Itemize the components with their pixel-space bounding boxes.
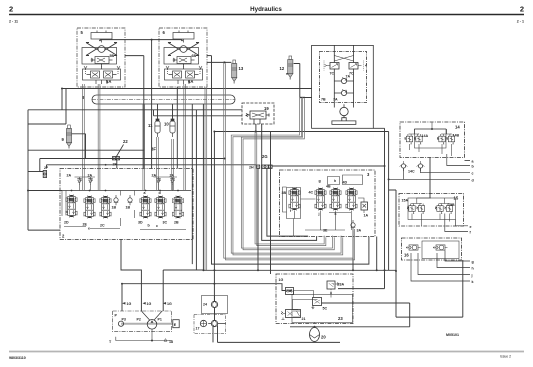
valve 5C — [312, 298, 328, 311]
wire: steering 5 valve out lower (double line) — [142, 104, 144, 190]
svg-text:4D: 4D — [343, 181, 348, 185]
wire: nest U6 from valve 19 (double line) — [255, 131, 326, 246]
svg-text:2A: 2A — [152, 173, 157, 177]
flow regulator 16 left — [406, 245, 421, 250]
svg-text:24: 24 — [203, 303, 207, 307]
label 22 with leader — [116, 139, 129, 158]
wire: center bundle vertical 205.8 (double) — [205, 87, 207, 270]
footer rule — [9, 351, 524, 353]
wire: 2F top marker stub — [116, 160, 118, 169]
relief valve 2A (1) — [67, 173, 82, 185]
block2 internal gallery lines — [62, 191, 135, 227]
svg-text:2: 2 — [520, 5, 524, 14]
gauge point 1G (1) — [122, 302, 131, 306]
svg-text:2A: 2A — [88, 173, 93, 177]
wire: pilot line y=115.8 — [154, 110, 243, 116]
wire: left corner down from y=88.5 — [61, 89, 63, 110]
svg-text:P2: P2 — [137, 318, 141, 322]
relief valve 1A — [358, 198, 368, 218]
test point marker 2F left — [43, 166, 49, 178]
wire: sensor 13 tee line — [207, 61, 231, 63]
svg-text:1G: 1G — [127, 302, 132, 306]
port leader h — [437, 253, 470, 268]
pressure switch 13 — [232, 60, 244, 84]
T and 18 drain line — [109, 329, 173, 344]
svg-text:2E: 2E — [83, 223, 88, 227]
svg-text:14A: 14A — [422, 134, 429, 138]
svg-text:1B: 1B — [126, 206, 131, 210]
svg-text:3D: 3D — [138, 221, 143, 225]
wire: bottom bus y=270.3 — [203, 269, 396, 271]
cartridge 15B pair — [435, 203, 455, 214]
spool section 3B — [282, 188, 301, 214]
hand pump circle — [340, 107, 348, 115]
port leader g — [445, 251, 470, 262]
svg-text:2D: 2D — [64, 221, 69, 225]
svg-text:Hydraulics: Hydraulics — [250, 6, 282, 13]
check valve unit 24 — [202, 296, 228, 314]
valve block 16 enclosure — [402, 238, 462, 260]
svg-text:g: g — [472, 260, 474, 264]
wire: accumulator 11 drain into block 2 (double line) — [156, 137, 158, 190]
wire: steering unit 5 supply down to block 2 (double line) — [97, 84, 99, 190]
wire: 23 block outlet right y=303 — [322, 302, 410, 304]
relief valve 2A (2) — [88, 173, 93, 185]
wire: pump P1 suction riser — [163, 270, 203, 311]
E box — [173, 320, 179, 328]
pump P1/P2 circle — [147, 320, 157, 330]
valve block 15 enclosure — [399, 194, 464, 227]
cylinder 8 — [82, 95, 235, 104]
port leader k — [411, 253, 470, 281]
svg-text:3C: 3C — [163, 221, 168, 225]
wire: block2 outlet to pump P2 — [121, 239, 141, 311]
spool section 3D — [138, 191, 151, 228]
port leader a — [465, 160, 471, 162]
svg-text:2G: 2G — [262, 154, 268, 159]
wire: check valve 3A drain to bus — [352, 230, 354, 270]
svg-text:2B: 2B — [174, 221, 179, 225]
svg-text:2 - 1: 2 - 1 — [517, 20, 524, 24]
svg-text:23A: 23A — [338, 283, 345, 287]
wire: mid bus y=164.8 — [47, 165, 257, 168]
svg-text:2 - 11: 2 - 11 — [9, 20, 18, 24]
svg-text:g: g — [319, 179, 321, 183]
svg-text:d: d — [472, 179, 474, 183]
svg-text:4C: 4C — [309, 191, 314, 195]
svg-text:16: 16 — [404, 253, 409, 258]
wire: left return line y=150.2 — [28, 149, 144, 151]
gauge point 1G (2) — [143, 302, 152, 306]
wire: left feed line y=109.8 to valve 19 — [28, 109, 242, 111]
23 inner rect — [292, 295, 353, 323]
relief valve 2A (4) — [170, 173, 175, 185]
svg-text:j: j — [471, 274, 473, 278]
svg-text:20: 20 — [321, 335, 326, 340]
junction dots on bus — [72, 190, 179, 192]
solenoid valve 23A — [327, 281, 344, 293]
valve 23B — [286, 288, 294, 295]
pump P3 circle — [118, 321, 123, 326]
svg-text:13: 13 — [239, 66, 244, 71]
svg-text:22: 22 — [123, 139, 128, 144]
cartridge 15A pair — [402, 199, 425, 214]
svg-text:3E: 3E — [323, 229, 328, 233]
steering unit 6 — [159, 28, 207, 87]
2A connection wires — [75, 177, 178, 191]
accumulator 12 — [280, 56, 293, 80]
wire: P3 feed bus y=283.7 — [122, 284, 286, 311]
block 2 inlet bus — [62, 190, 191, 192]
svg-text:e: e — [88, 227, 90, 231]
accumulator 11 — [148, 119, 160, 137]
gauge point 1G (3) — [163, 302, 172, 306]
wire: block2 bus extension left — [28, 190, 62, 192]
wire: center bundle vertical 196.4 — [195, 110, 197, 270]
wire: 23 block bottom drain y=326.8 — [290, 303, 410, 327]
wire: 2F left marker stub — [28, 171, 43, 173]
14 internal wiring — [410, 123, 452, 157]
14 inner rect — [415, 129, 447, 148]
svg-text:15A: 15A — [402, 199, 409, 203]
solenoid valve 19 — [242, 103, 274, 124]
23 internal wires — [286, 291, 332, 310]
shuttle 7A lower — [333, 90, 354, 102]
wire: nest line U1 left — [202, 104, 204, 270]
brake valve 7C right — [349, 61, 367, 76]
test point 2H marker — [249, 165, 260, 170]
wire: accumulator 11/10 stems — [158, 104, 173, 119]
crossover lines above 7C — [334, 56, 353, 62]
wire: accumulator 10 drain into block 2 (double line) — [171, 139, 173, 190]
wire: nest U8 from 2G — [267, 168, 308, 236]
shuttle 7A upper — [334, 75, 353, 84]
svg-text:P1: P1 — [158, 318, 162, 322]
wire: center bundle vertical 192.3 — [191, 104, 193, 264]
svg-text:4B: 4B — [326, 185, 331, 189]
wire: center bundle vertical 214.4 through 24 — [213, 132, 215, 302]
svg-text:23B: 23B — [286, 289, 293, 293]
block 3 internal rects — [287, 175, 363, 219]
pump pedestal — [332, 118, 356, 125]
svg-text:19: 19 — [264, 106, 269, 111]
wire: pilot row y=166 to right — [272, 165, 384, 167]
svg-text:1B: 1B — [112, 206, 117, 210]
svg-text:j: j — [318, 212, 320, 216]
wire: left bottom stub into block 2 — [28, 229, 60, 231]
wire: nest U5 (double line) — [241, 97, 334, 250]
wire: pilot line y=131.5 across to right — [214, 131, 388, 133]
wire: left sub rect top y=124 — [28, 89, 66, 125]
svg-text:5B: 5B — [110, 54, 115, 58]
wire: right vertical x=396 — [389, 190, 463, 317]
spool section 4B — [326, 179, 341, 216]
svg-text:17: 17 — [196, 327, 200, 331]
spool section 2D — [64, 195, 77, 225]
svg-text:2: 2 — [9, 5, 13, 14]
spool section 2E — [83, 196, 96, 231]
wire: 2G third drop to block 23 — [270, 132, 272, 275]
header rule — [9, 14, 524, 16]
svg-text:e: e — [470, 225, 472, 229]
wire: steering 5 tank return (double line) — [82, 84, 84, 190]
svg-text:18: 18 — [169, 340, 173, 344]
port leader d — [389, 168, 470, 179]
wire: filter 20 stems — [314, 327, 316, 343]
spool section 4D — [343, 181, 358, 211]
port leader c — [421, 168, 471, 173]
svg-text:14: 14 — [455, 125, 460, 130]
accumulator 9 — [62, 125, 72, 149]
port leader b — [447, 154, 470, 166]
pilot block 23 enclosure — [276, 274, 353, 324]
svg-text:6A: 6A — [188, 79, 193, 84]
svg-text:3A: 3A — [357, 229, 362, 233]
check valve 1B (1) — [112, 195, 119, 210]
svg-text:2H: 2H — [249, 166, 254, 170]
svg-text:5C: 5C — [323, 307, 328, 311]
svg-text:2A: 2A — [67, 173, 72, 177]
port leader e — [456, 220, 469, 226]
supply lines through 7 — [334, 45, 353, 107]
hand pump assembly outer frame 7 — [312, 45, 374, 128]
check valve 1B (2) — [126, 195, 133, 210]
main control valve block 2 enclosure — [60, 169, 193, 240]
spool section 3C — [155, 191, 168, 228]
spool section 2B — [172, 196, 183, 225]
wire: nest U3 (double line) — [224, 62, 355, 260]
svg-text:14B: 14B — [453, 134, 460, 138]
cartridge 14B pair — [437, 134, 459, 145]
svg-text:7B: 7B — [321, 98, 326, 102]
svg-text:10: 10 — [164, 122, 169, 127]
svg-text:c: c — [472, 172, 474, 176]
wire: nest U7 from valve 19 right drop — [262, 124, 317, 240]
svg-text:7C: 7C — [330, 72, 335, 76]
wire: 2H drop — [257, 168, 259, 270]
loader valve block 3 enclosure — [280, 170, 376, 237]
wire: right vertical x=388.6 — [388, 132, 390, 271]
wire: steering unit 5 valve out to block 2 — [125, 56, 144, 169]
wire: 24 to 17 — [214, 308, 216, 321]
wire: sensor 12 line to hand pump 7 — [294, 64, 312, 98]
block 3 gallery — [283, 187, 352, 237]
svg-text:h: h — [334, 179, 336, 183]
steering unit 5 — [77, 28, 125, 87]
wire: nest U4 (double line) — [231, 97, 343, 255]
wire: mid bus y=158.5 — [40, 159, 225, 172]
svg-text:h: h — [472, 267, 474, 271]
svg-text:7A: 7A — [346, 75, 351, 79]
pump drive shaft — [121, 323, 173, 325]
filter 20 — [310, 322, 327, 342]
quick couplings 14C — [400, 161, 425, 174]
svg-text:c: c — [156, 224, 158, 228]
wire: hand pump 7 drain down to 23A — [338, 128, 385, 288]
port leader f — [445, 214, 468, 232]
brake valve 7C left — [324, 61, 339, 76]
cartridge 14A pair — [405, 134, 429, 144]
svg-text:23: 23 — [338, 316, 343, 321]
svg-text:12: 12 — [280, 66, 285, 71]
wire: nest U2 — [212, 56, 369, 265]
wire: steering unit 6 supply down to block 2 (double line) — [183, 84, 185, 190]
svg-text:M05101: M05101 — [446, 333, 459, 337]
svg-text:1A: 1A — [364, 214, 369, 218]
check valve 3A — [351, 220, 362, 233]
test point marker 2F top — [113, 157, 120, 167]
wire: valve 19 drops — [255, 124, 257, 132]
wire: box 14 to box 15 link — [429, 158, 431, 199]
wire: sensor 9 drain loop — [72, 134, 86, 159]
brake valve block 7B enclosure — [320, 52, 367, 103]
block2 bottom brackets — [64, 227, 186, 230]
wire: steering 6 relief drain — [176, 87, 178, 169]
accumulator 10 — [164, 119, 175, 137]
svg-text:7A: 7A — [333, 98, 338, 102]
svg-text:2C: 2C — [100, 224, 105, 228]
wire: steering unit 6 valve out — [207, 55, 212, 57]
svg-text:1G: 1G — [147, 302, 152, 306]
spool section 4C — [309, 179, 327, 216]
svg-text:k: k — [472, 280, 474, 284]
spool section 2C — [100, 196, 111, 228]
suction V lines into main pump — [141, 311, 162, 320]
wire: 17 drain to tank line — [213, 326, 340, 343]
svg-text:6B: 6B — [192, 54, 197, 58]
svg-text:P3: P3 — [122, 318, 126, 322]
pump assembly P — [113, 311, 180, 332]
test point 2G markers — [262, 154, 273, 168]
svg-text:1G: 1G — [279, 278, 284, 282]
flow regulator 16 right — [433, 245, 448, 250]
svg-text:21: 21 — [302, 317, 306, 321]
wire: left vertical main return — [27, 110, 29, 230]
port leader j — [418, 253, 470, 275]
svg-text:9803/3110: 9803/3110 — [9, 356, 26, 360]
svg-text:Issue 2: Issue 2 — [500, 355, 511, 359]
svg-text:11: 11 — [148, 123, 153, 128]
valve block 14 enclosure — [400, 122, 465, 158]
svg-text:5A: 5A — [106, 79, 111, 84]
solenoid valve 21 — [281, 310, 306, 322]
relief valve 2A (3) — [152, 173, 161, 185]
svg-text:14C: 14C — [408, 170, 415, 174]
svg-text:1G: 1G — [167, 302, 172, 306]
svg-text:d: d — [159, 191, 161, 195]
wire: steering unit 5 wheel link down — [100, 40, 182, 169]
wire: long bus y=88.5 — [62, 88, 312, 90]
wire: block 3 drain to bus — [376, 237, 378, 271]
cooler bypass 17 — [194, 315, 226, 334]
